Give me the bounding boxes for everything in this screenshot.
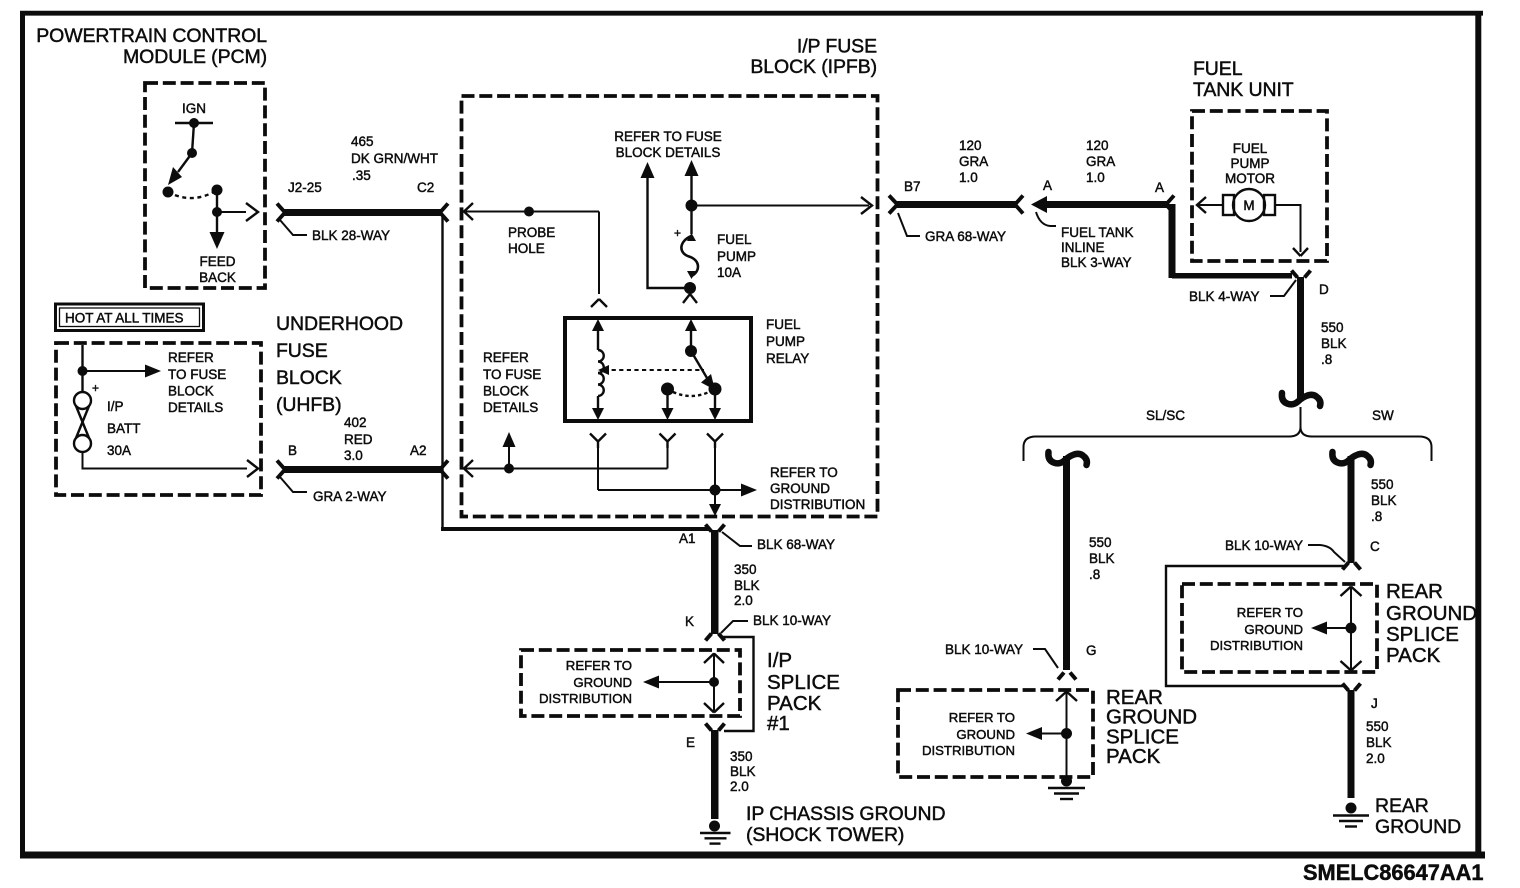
connector B <box>277 443 297 479</box>
svg-text:TANK UNIT: TANK UNIT <box>1193 79 1294 101</box>
svg-text:D: D <box>1319 282 1329 297</box>
svg-text:REAR: REAR <box>1375 795 1429 817</box>
module FUEL TANK UNIT box <box>1192 111 1327 261</box>
svg-text:402: 402 <box>344 415 367 430</box>
svg-text:IGN: IGN <box>182 101 206 116</box>
svg-text:FEED: FEED <box>199 254 235 269</box>
ground rear left <box>1048 776 1085 800</box>
svg-text:INLINE: INLINE <box>1061 240 1105 255</box>
svg-text:DISTRIBUTION: DISTRIBUTION <box>922 743 1015 758</box>
svg-text:HOLE: HOLE <box>508 241 545 256</box>
svg-text:BLK 4-WAY: BLK 4-WAY <box>1189 289 1260 304</box>
svg-text:REFER TO: REFER TO <box>1237 605 1303 620</box>
svg-text:REFER TO: REFER TO <box>566 658 632 673</box>
label I/P SPLICE PACK #1 <box>767 649 840 735</box>
label BLK 10-WAY (C) <box>1225 538 1345 562</box>
box HOT AT ALL TIMES <box>56 304 204 331</box>
svg-text:BLK 3-WAY: BLK 3-WAY <box>1061 255 1132 270</box>
svg-text:GROUND: GROUND <box>770 481 830 496</box>
connector B7 <box>889 179 921 214</box>
svg-text:PUMP: PUMP <box>766 334 805 349</box>
svg-text:BLK 28-WAY: BLK 28-WAY <box>312 228 390 243</box>
svg-text:1.0: 1.0 <box>1086 170 1105 185</box>
svg-text:A2: A2 <box>410 443 427 458</box>
connector C <box>1343 539 1381 570</box>
motor M1 <box>1223 189 1275 221</box>
svg-text:BLK: BLK <box>730 764 756 779</box>
wire 120 GRA 1.0 (B7-A) <box>896 138 1017 208</box>
svg-text:GROUND: GROUND <box>956 727 1015 742</box>
svg-text:FUEL: FUEL <box>1193 58 1243 80</box>
label refer to ground distribution (right pack) <box>1210 605 1303 653</box>
ground IP chassis <box>700 821 731 844</box>
label REAR GROUND SPLICE PACK (right) <box>1386 580 1477 667</box>
module PCM box <box>145 83 265 288</box>
svg-text:I/P FUSE: I/P FUSE <box>797 36 877 58</box>
fuse FUEL PUMP 10A <box>674 226 756 294</box>
splice pack 1 bus <box>720 637 754 731</box>
svg-text:465: 465 <box>351 134 374 149</box>
label refer to fuse block details (top) <box>614 129 722 160</box>
svg-text:J: J <box>1371 696 1378 711</box>
connector J <box>1343 684 1378 712</box>
svg-text:BLK: BLK <box>1089 551 1115 566</box>
svg-text:REFER TO: REFER TO <box>949 710 1015 725</box>
svg-text:10A: 10A <box>717 265 741 280</box>
label BLK 10-WAY (G) <box>945 642 1058 668</box>
splice pack 1 node <box>643 653 724 713</box>
module UHFB title <box>276 313 403 416</box>
connector A (GRA 68-WAY) <box>1015 178 1052 214</box>
relay switch pin top <box>685 319 715 390</box>
label refer to ground distribution (left pack) <box>922 710 1015 758</box>
svg-text:2.0: 2.0 <box>730 779 749 794</box>
svg-text:FUEL: FUEL <box>1233 141 1268 156</box>
svg-text:120: 120 <box>959 138 982 153</box>
svg-text:550: 550 <box>1321 320 1344 335</box>
module UHFB box <box>56 343 261 495</box>
svg-text:3.0: 3.0 <box>344 448 363 463</box>
label IGN <box>182 101 206 116</box>
svg-text:BLOCK DETAILS: BLOCK DETAILS <box>616 145 721 160</box>
relay actuation dashed line <box>598 365 704 375</box>
svg-text:FUEL: FUEL <box>766 317 801 332</box>
label FUEL PUMP MOTOR <box>1225 141 1275 186</box>
svg-text:I/P: I/P <box>767 649 792 672</box>
wire 550 BLK 2.0 (J) <box>1348 690 1392 798</box>
svg-text:.35: .35 <box>352 168 371 183</box>
wire motor ground <box>1275 205 1308 256</box>
wire motor feed <box>1197 197 1223 213</box>
label BLK 68-WAY <box>722 532 835 552</box>
svg-text:M: M <box>1243 198 1254 213</box>
rear ground splice pack right box <box>1182 584 1377 672</box>
svg-text:HOT AT ALL TIMES: HOT AT ALL TIMES <box>65 311 184 326</box>
connector A2 <box>410 443 448 479</box>
label FUEL TANK INLINE BLK 3-WAY <box>1036 212 1134 270</box>
ground rear right <box>1333 803 1369 827</box>
svg-text:GRA: GRA <box>1086 154 1115 169</box>
svg-text:REFER TO FUSE: REFER TO FUSE <box>614 129 722 144</box>
svg-text:J2-25: J2-25 <box>288 180 322 195</box>
connector J2-25 <box>277 180 322 222</box>
svg-text:B7: B7 <box>904 179 921 194</box>
svg-text:IP CHASSIS GROUND: IP CHASSIS GROUND <box>746 803 945 825</box>
svg-text:E: E <box>686 735 695 750</box>
svg-text:SMELC86647AA1: SMELC86647AA1 <box>1303 860 1484 885</box>
wire fuel tank return <box>1169 204 1293 279</box>
relay contacts <box>661 383 722 421</box>
svg-text:BLK 10-WAY: BLK 10-WAY <box>1225 538 1303 553</box>
relay coil <box>592 350 604 420</box>
svg-text:30A: 30A <box>107 443 131 458</box>
svg-text:(SHOCK TOWER): (SHOCK TOWER) <box>746 824 904 846</box>
svg-text:GRA: GRA <box>959 154 988 169</box>
svg-text:A1: A1 <box>679 531 696 546</box>
wire 402 RED 3.0 <box>284 415 442 473</box>
svg-text:+: + <box>674 226 681 240</box>
svg-text:550: 550 <box>1371 477 1394 492</box>
svg-text:DISTRIBUTION: DISTRIBUTION <box>539 691 632 706</box>
connector fuel tank inline <box>1166 196 1174 214</box>
wire IPFB connector bus <box>441 214 709 529</box>
svg-text:G: G <box>1086 643 1097 658</box>
svg-text:FUEL TANK: FUEL TANK <box>1061 225 1134 240</box>
label BLK 28-WAY <box>280 220 390 243</box>
splice S408 <box>1282 393 1321 406</box>
wire 550 BLK .8 (C) <box>1348 456 1397 563</box>
svg-text:SL/SC: SL/SC <box>1146 408 1185 423</box>
arrow refer to fuse block details (UHFB) <box>87 350 226 415</box>
connector fuse to relay <box>683 294 697 303</box>
label REAR GROUND SPLICE PACK (left) <box>1106 686 1197 768</box>
label GRA 68-WAY <box>898 213 1006 244</box>
svg-text:TO FUSE: TO FUSE <box>483 367 541 382</box>
svg-text:DK GRN/WHT: DK GRN/WHT <box>351 151 438 166</box>
svg-text:350: 350 <box>730 749 753 764</box>
svg-text:BLK 10-WAY: BLK 10-WAY <box>753 613 831 628</box>
svg-text:BATT: BATT <box>107 421 141 436</box>
svg-text:POWERTRAIN CONTROL: POWERTRAIN CONTROL <box>36 25 267 47</box>
probe hole line <box>464 203 607 307</box>
label refer to ground distribution (splice pack 1) <box>539 658 632 706</box>
svg-text:BLOCK: BLOCK <box>276 367 342 389</box>
svg-text:2.0: 2.0 <box>734 593 753 608</box>
svg-text:FUEL: FUEL <box>717 232 752 247</box>
svg-text:BLOCK: BLOCK <box>168 384 214 399</box>
svg-text:BLK: BLK <box>1371 493 1397 508</box>
svg-text:120: 120 <box>1086 138 1109 153</box>
svg-text:BLK: BLK <box>1366 735 1392 750</box>
svg-text:(UHFB): (UHFB) <box>276 394 341 416</box>
svg-text:UNDERHOOD: UNDERHOOD <box>276 313 403 335</box>
svg-text:PACK: PACK <box>1386 644 1441 667</box>
label SMELC86647AA1 <box>1303 860 1484 885</box>
module IPFB title <box>750 36 877 79</box>
splice left branch <box>1048 452 1087 465</box>
connector D <box>1292 271 1330 298</box>
wire 120 GRA 1.0 (A-fuel tank) <box>1031 138 1167 213</box>
svg-text:SW: SW <box>1372 408 1394 423</box>
splice pack 1 box <box>521 650 740 716</box>
svg-text:.8: .8 <box>1089 567 1100 582</box>
svg-text:DISTRIBUTION: DISTRIBUTION <box>1210 638 1303 653</box>
module FUEL TANK UNIT title <box>1193 58 1294 101</box>
svg-text:2.0: 2.0 <box>1366 751 1385 766</box>
rear ground splice pack left node <box>1026 692 1077 783</box>
wire relay 86 to connector <box>464 448 668 477</box>
relay FUEL PUMP RELAY box <box>565 317 809 421</box>
svg-text:GRA 2-WAY: GRA 2-WAY <box>313 489 387 504</box>
rear ground splice pack right bus <box>1166 566 1345 686</box>
wire 550 BLK .8 (G) <box>1063 456 1115 670</box>
svg-text:BLK 68-WAY: BLK 68-WAY <box>757 537 835 552</box>
connector K <box>685 614 725 641</box>
relay pin sockets below <box>590 434 723 449</box>
fuse I/P BATT 30A <box>74 381 141 458</box>
label refer to ground distribution (IPFB) <box>770 465 865 512</box>
svg-text:REFER: REFER <box>483 350 529 365</box>
svg-text:.8: .8 <box>1321 352 1332 367</box>
svg-text:BLK: BLK <box>734 578 760 593</box>
svg-text:350: 350 <box>734 562 757 577</box>
rear ground splice pack right node <box>1311 587 1362 671</box>
svg-text:PACK: PACK <box>1106 745 1161 768</box>
svg-text:PUMP: PUMP <box>717 249 756 264</box>
label BLK 4-WAY <box>1189 280 1296 304</box>
svg-text:GRA 68-WAY: GRA 68-WAY <box>925 229 1006 244</box>
wire UHFB feed <box>78 345 88 392</box>
wire 550 BLK .8 (D) <box>1297 277 1347 401</box>
svg-text:FUSE: FUSE <box>276 340 328 362</box>
svg-text:GROUND: GROUND <box>1386 602 1477 625</box>
arrow to fuse details right stem <box>685 160 699 200</box>
svg-text:PUMP: PUMP <box>1230 156 1269 171</box>
svg-text:A: A <box>1155 180 1164 195</box>
brace harness branch <box>1024 407 1432 461</box>
connector A1 <box>679 525 725 547</box>
wire 350 BLK 2.0 upper <box>711 530 760 634</box>
svg-text:C2: C2 <box>417 180 434 195</box>
connector G <box>1058 643 1097 680</box>
svg-text:DISTRIBUTION: DISTRIBUTION <box>770 497 865 512</box>
label REAR GROUND <box>1375 795 1461 838</box>
svg-text:REFER TO: REFER TO <box>770 465 838 480</box>
wire 465 DK GRN/WHT .35 <box>284 134 442 216</box>
connector C2 <box>417 180 448 222</box>
svg-text:A: A <box>1043 178 1052 193</box>
svg-text:MOTOR: MOTOR <box>1225 171 1275 186</box>
svg-text:BLOCK: BLOCK <box>483 384 529 399</box>
svg-text:550: 550 <box>1366 719 1389 734</box>
label BLK 10-WAY (K) <box>721 613 831 633</box>
svg-text:B: B <box>288 443 297 458</box>
wire 350 BLK 2.0 lower <box>711 730 756 819</box>
svg-text:#1: #1 <box>767 712 790 735</box>
ignition switch S1 <box>163 118 259 249</box>
svg-text:C: C <box>1370 539 1380 554</box>
svg-text:TO FUSE: TO FUSE <box>168 367 226 382</box>
label FEED BACK <box>199 254 236 285</box>
svg-text:SPLICE: SPLICE <box>767 671 840 694</box>
label refer to fuse details (left) <box>483 350 541 469</box>
svg-text:GROUND: GROUND <box>573 675 632 690</box>
svg-text:I/P: I/P <box>107 399 124 414</box>
svg-text:MODULE (PCM): MODULE (PCM) <box>123 46 267 68</box>
svg-text:BLK: BLK <box>1321 336 1347 351</box>
arrow to fuse details left stem <box>641 162 687 288</box>
svg-text:.8: .8 <box>1371 509 1382 524</box>
module PCM title <box>36 25 267 68</box>
label IP CHASSIS GROUND <box>746 803 945 846</box>
svg-text:DETAILS: DETAILS <box>168 400 223 415</box>
svg-text:BACK: BACK <box>199 270 236 285</box>
svg-text:RELAY: RELAY <box>766 351 809 366</box>
svg-text:RED: RED <box>344 432 373 447</box>
svg-text:1.0: 1.0 <box>959 170 978 185</box>
svg-text:SPLICE: SPLICE <box>1386 623 1459 646</box>
svg-text:REAR: REAR <box>1386 580 1443 603</box>
connector E <box>686 724 725 751</box>
svg-text:DETAILS: DETAILS <box>483 400 538 415</box>
splice right branch <box>1332 452 1371 465</box>
svg-text:BLK 10-WAY: BLK 10-WAY <box>945 642 1023 657</box>
svg-text:550: 550 <box>1089 535 1112 550</box>
svg-text:GROUND: GROUND <box>1244 622 1303 637</box>
relay coil pin top <box>592 319 604 350</box>
svg-text:REFER: REFER <box>168 350 214 365</box>
wire UHFB output <box>83 452 259 477</box>
svg-text:K: K <box>685 614 694 629</box>
node fuse feed <box>686 197 873 234</box>
wire relay ground path <box>598 448 757 516</box>
svg-text:PROBE: PROBE <box>508 225 555 240</box>
module IPFB box <box>462 96 878 517</box>
label GRA 2-WAY <box>280 477 387 504</box>
svg-text:+: + <box>92 381 99 395</box>
rear ground splice pack left box <box>898 690 1093 777</box>
svg-text:BLOCK (IPFB): BLOCK (IPFB) <box>750 56 877 78</box>
svg-text:GROUND: GROUND <box>1375 816 1461 838</box>
